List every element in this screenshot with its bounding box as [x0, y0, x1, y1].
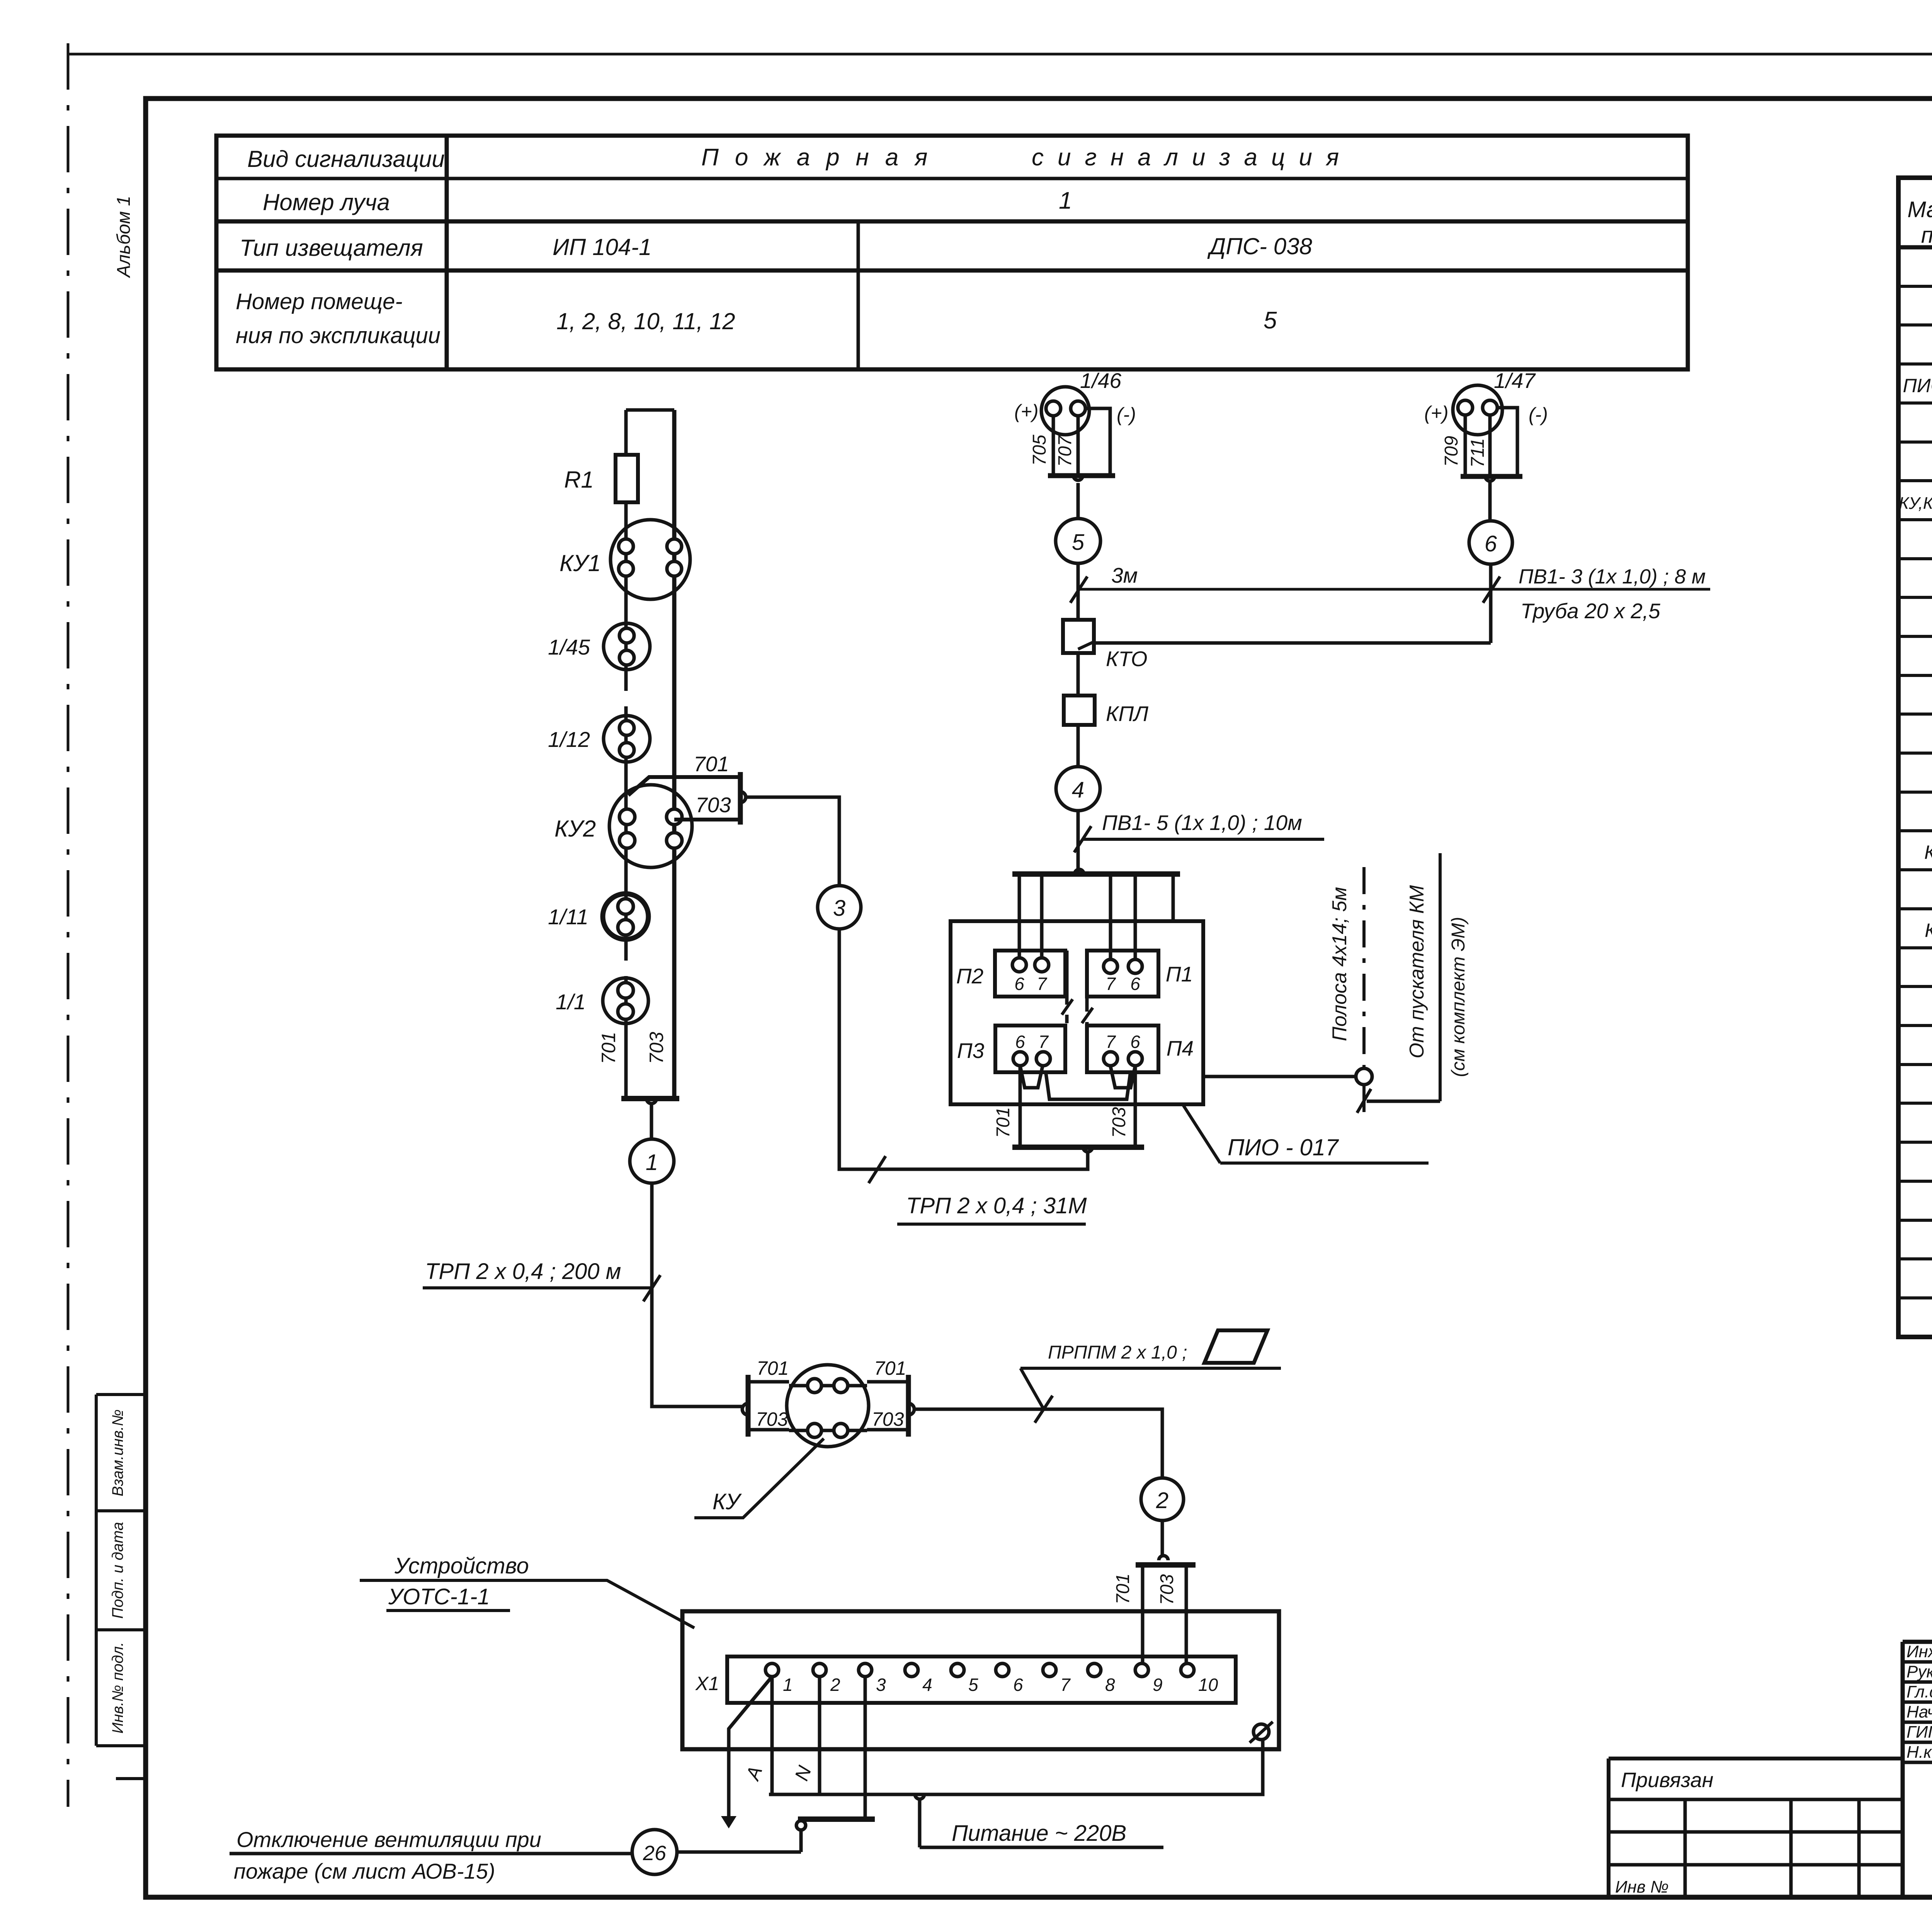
svg-text:Номер помеще-: Номер помеще-	[236, 289, 403, 314]
detector 1/1	[603, 978, 648, 1024]
spec row line	[1898, 323, 1932, 327]
wire chain bottom to node 1	[650, 1104, 653, 1139]
terminal 7	[1043, 1663, 1056, 1677]
svg-text:6: 6	[1130, 974, 1140, 994]
node 2 circle	[1141, 1478, 1184, 1520]
wire terminal 1	[770, 1677, 774, 1794]
svg-text:5: 5	[1072, 530, 1085, 555]
svg-text:П4: П4	[1167, 1036, 1194, 1060]
detector 1/11	[603, 894, 648, 939]
svg-text:Питание ~ 220В: Питание ~ 220В	[952, 1821, 1126, 1846]
KU terminal connector lines	[789, 1386, 867, 1430]
strip dash-dot line	[1362, 867, 1366, 1121]
svg-text:КУ,КУ1,КУ2: КУ,КУ1,КУ2	[1899, 494, 1932, 513]
svg-text:(-): (-)	[1117, 404, 1136, 425]
svg-text:Х1: Х1	[695, 1673, 719, 1694]
wire 709	[1464, 415, 1467, 476]
junction box KU left bump	[742, 1403, 748, 1415]
svg-text:ПВ1- 5 (1х 1,0) ; 10м: ПВ1- 5 (1х 1,0) ; 10м	[1102, 811, 1302, 835]
broken wire between P2 and P3	[1065, 951, 1069, 1023]
svg-text:сигнализация: сигнализация	[1032, 144, 1353, 171]
arrow end	[721, 1816, 736, 1828]
svg-text:701: 701	[757, 1357, 789, 1379]
spec row line	[1898, 479, 1932, 482]
terminal 5	[951, 1663, 964, 1677]
relay box P1	[1087, 951, 1158, 997]
wire 707	[1077, 416, 1080, 476]
svg-text:(+): (+)	[1014, 401, 1039, 422]
spec row line	[1898, 362, 1932, 366]
svg-text:703: 703	[872, 1408, 904, 1430]
title block signature table frame	[1903, 1642, 1932, 1897]
terminal 10	[1181, 1663, 1194, 1677]
svg-text:7: 7	[1037, 974, 1047, 994]
svg-text:Подп. и дата: Подп. и дата	[109, 1522, 126, 1619]
UOTS-1-1 device block	[682, 1611, 1279, 1749]
terminal box 701/703 above X1	[1159, 1556, 1168, 1560]
wire to node 5	[1077, 483, 1080, 519]
terminal box 701/703 at KU2	[628, 777, 740, 795]
svg-text:5: 5	[968, 1675, 978, 1695]
wire KTO to branch 1/47	[1094, 641, 1491, 645]
svg-text:701: 701	[1113, 1573, 1133, 1604]
signature rows	[1903, 1660, 1932, 1664]
svg-text:Инжен: Инжен	[1906, 1642, 1932, 1661]
supply line A N	[769, 1740, 1263, 1794]
wire 705	[1052, 416, 1055, 476]
spec row line	[1898, 1296, 1932, 1299]
svg-text:ГИП: ГИП	[1906, 1723, 1932, 1742]
svg-text:1/46: 1/46	[1080, 369, 1121, 393]
node 4 circle	[1056, 767, 1100, 811]
spec row line	[1898, 829, 1932, 832]
svg-text:П3: П3	[957, 1039, 985, 1063]
svg-text:4: 4	[1072, 777, 1084, 803]
junction box KU1	[611, 520, 690, 599]
specification table frame	[1898, 178, 1932, 1337]
svg-text:703: 703	[696, 793, 731, 817]
junction box KU left rect	[748, 1382, 789, 1430]
spec row line	[1898, 1024, 1932, 1027]
spec row line	[1898, 596, 1932, 599]
wire joint to ventilation line	[799, 1830, 803, 1852]
wires bus to P2 terminals	[1019, 874, 1042, 965]
svg-text:КПЛ: КПЛ	[1106, 702, 1148, 726]
wire terminal 2	[818, 1677, 821, 1794]
wire node 2 to terminal box	[1161, 1520, 1164, 1556]
svg-text:1/1: 1/1	[556, 990, 586, 1014]
svg-text:ИП 104-1: ИП 104-1	[553, 234, 652, 260]
svg-text:Альбом 1: Альбом 1	[114, 196, 134, 279]
node on strip line	[1356, 1068, 1372, 1085]
svg-text:3: 3	[833, 896, 845, 921]
spec row line	[1898, 518, 1932, 521]
junction box KU left end bar	[746, 1375, 751, 1437]
svg-text:1, 2, 8, 10, 11, 12: 1, 2, 8, 10, 11, 12	[556, 308, 735, 334]
svg-text:8: 8	[1105, 1675, 1115, 1695]
svg-text:Отключение вентиляции при: Отключение вентиляции при	[236, 1827, 541, 1852]
junction box KU right rect	[867, 1382, 908, 1430]
svg-text:6: 6	[1485, 531, 1497, 556]
wire from KU2 box to node 3	[746, 797, 839, 886]
svg-text:Взам.инв.№: Взам.инв.№	[109, 1409, 126, 1496]
svg-text:703: 703	[756, 1408, 788, 1430]
wire PIO right to strip node	[1203, 1075, 1356, 1078]
spec row line	[1898, 713, 1932, 716]
svg-text:ТРП 2 х 0,4 ; 200 м: ТРП 2 х 0,4 ; 200 м	[425, 1259, 621, 1284]
KM vertical line	[1439, 853, 1442, 1101]
svg-text:КТО: КТО	[1106, 647, 1148, 671]
svg-text:R1: R1	[564, 467, 594, 493]
svg-text:(-): (-)	[1529, 404, 1548, 425]
junction box KU right end bar	[906, 1375, 911, 1437]
svg-text:1/45: 1/45	[548, 635, 590, 659]
spec row line	[1898, 285, 1932, 288]
wire KPL to node 4	[1077, 725, 1080, 767]
wire node 4 to PIO bus	[1077, 811, 1080, 874]
svg-text:Нач.отд.: Нач.отд.	[1906, 1702, 1932, 1721]
svg-text:6: 6	[1014, 974, 1024, 994]
jumper wide P3-7 to P4-7	[1046, 1071, 1131, 1099]
wires bus to P1 terminals	[1111, 874, 1135, 966]
svg-text:(см комплект ЭМ): (см комплект ЭМ)	[1448, 917, 1469, 1077]
detector 1/47	[1453, 385, 1502, 435]
diagonal wire from terminal 1	[729, 1677, 772, 1816]
table column line rows3-4	[857, 221, 860, 369]
table column line	[445, 136, 449, 369]
cable dimension line 3m / PV1-3	[1078, 588, 1710, 591]
spec row line	[1898, 752, 1932, 755]
wire: dashed segment 1/11 to 1/1	[624, 939, 628, 978]
svg-text:ПВ1- 3 (1х 1,0) ; 8 м: ПВ1- 3 (1х 1,0) ; 8 м	[1519, 565, 1706, 588]
wire bus to block top	[1172, 874, 1175, 921]
broken wire between P1 and P4	[1085, 959, 1089, 1026]
spec row line	[1898, 1102, 1932, 1105]
wire node 26 to joint	[677, 1850, 801, 1854]
svg-text:Пожарная: Пожарная	[701, 144, 944, 171]
spec row line	[1898, 985, 1932, 988]
svg-text:КУ: КУ	[713, 1489, 742, 1514]
terminal 2	[813, 1663, 826, 1677]
svg-text:2: 2	[1156, 1488, 1168, 1513]
detector 1/45	[604, 623, 650, 670]
privyazan block frame	[1609, 1759, 1903, 1897]
wire bracket 1/46	[1085, 408, 1110, 476]
junction box KU right bump	[908, 1403, 914, 1415]
svg-text:Инв.№ подл.: Инв.№ подл.	[109, 1642, 126, 1733]
detector 1/46	[1041, 387, 1089, 435]
junction box KPL	[1064, 696, 1095, 725]
spec row line	[1898, 791, 1932, 794]
spec header bottom line	[1898, 245, 1932, 250]
svg-text:2: 2	[830, 1675, 840, 1695]
svg-text:ния по экспликации: ния по экспликации	[236, 323, 440, 348]
svg-text:П2: П2	[956, 964, 983, 988]
svg-text:ДПС- 038: ДПС- 038	[1207, 233, 1312, 259]
detector 1/12	[604, 716, 650, 762]
svg-text:26: 26	[643, 1842, 667, 1865]
wire: top connector	[626, 408, 674, 412]
margin stamp cells	[95, 1395, 98, 1746]
spec row line	[1898, 946, 1932, 949]
svg-text:КУ2: КУ2	[554, 816, 596, 842]
earth symbol	[1253, 1724, 1269, 1740]
svg-text:701: 701	[874, 1357, 906, 1379]
terminal 9	[1135, 1663, 1148, 1677]
table row line 2	[216, 219, 1688, 224]
svg-text:7: 7	[1105, 974, 1116, 994]
svg-text:6: 6	[1015, 1032, 1025, 1052]
svg-text:Тип извещателя: Тип извещателя	[240, 235, 423, 261]
svg-text:9: 9	[1153, 1675, 1163, 1695]
spec row line	[1898, 907, 1932, 910]
jumper P3 6-7	[1020, 1066, 1043, 1088]
wire KTO to KPL	[1077, 653, 1080, 696]
svg-text:Вид сигнализации: Вид сигнализации	[247, 146, 445, 172]
svg-text:1/11: 1/11	[548, 905, 588, 929]
relay box P3	[995, 1026, 1065, 1072]
svg-text:7: 7	[1060, 1675, 1071, 1695]
spec row line	[1898, 401, 1932, 405]
svg-text:Труба 20 х 2,5: Труба 20 х 2,5	[1520, 599, 1660, 623]
wire node 6 down to KTO line	[1489, 564, 1493, 643]
wire KU to node 2	[914, 1409, 1162, 1478]
page outer border top	[68, 53, 1932, 56]
svg-text:705: 705	[1029, 435, 1050, 466]
svg-text:ПРППМ 2 х 1,0 ;: ПРППМ 2 х 1,0 ;	[1048, 1342, 1187, 1363]
junction box KU circle	[787, 1365, 869, 1447]
svg-text:1/12: 1/12	[548, 727, 590, 752]
svg-text:УОТС-1-1: УОТС-1-1	[388, 1584, 490, 1609]
spec row line	[1898, 674, 1932, 677]
terminal 3	[859, 1663, 872, 1677]
svg-text:поз.: поз.	[1921, 223, 1932, 248]
svg-text:Привязан: Привязан	[1621, 1769, 1713, 1792]
svg-text:Устройство: Устройство	[394, 1553, 529, 1578]
wire 711	[1488, 415, 1492, 476]
svg-text:ТРП 2 х 0,4 ; 31М: ТРП 2 х 0,4 ; 31М	[906, 1193, 1087, 1218]
svg-text:ПИО-017: ПИО-017	[1903, 375, 1932, 396]
spec row line	[1898, 1257, 1932, 1260]
cable joint bar 1/47	[1461, 474, 1522, 479]
svg-text:П1: П1	[1166, 962, 1193, 986]
table row line 1	[216, 177, 1688, 180]
svg-text:(+): (+)	[1424, 402, 1449, 424]
X1 terminal strip	[727, 1656, 1236, 1703]
wire: dashed segment 1/45 to 1/12	[624, 670, 628, 716]
wire to KM line	[1367, 1100, 1440, 1103]
spec row line	[1898, 557, 1932, 560]
svg-text:711: 711	[1468, 438, 1488, 468]
wire node 3 down to PIO bottom	[839, 929, 1088, 1169]
spec row line	[1898, 1219, 1932, 1222]
svg-text:701: 701	[993, 1107, 1014, 1138]
terminal 8	[1088, 1663, 1101, 1677]
shield bar	[798, 1816, 875, 1822]
svg-text:4: 4	[922, 1675, 932, 1695]
svg-text:1/47: 1/47	[1494, 369, 1536, 393]
svg-text:6: 6	[1130, 1032, 1140, 1052]
jumper P4 7-6	[1111, 1066, 1135, 1088]
svg-text:10: 10	[1198, 1675, 1218, 1695]
supply tap circle	[915, 1794, 924, 1799]
terminal 4	[905, 1663, 918, 1677]
node 6 circle	[1469, 521, 1512, 564]
svg-text:6: 6	[1013, 1675, 1023, 1695]
svg-text:709: 709	[1441, 436, 1462, 467]
svg-text:Инв №: Инв №	[1615, 1878, 1669, 1896]
spec row line	[1898, 1180, 1932, 1183]
wire node 5 to KTO	[1077, 563, 1080, 620]
wire P4-6 to bottom bus	[1134, 1066, 1137, 1147]
svg-text:От пускателя КМ: От пускателя КМ	[1406, 885, 1428, 1058]
wire to node 6	[1488, 481, 1492, 521]
PIO bottom bus bar	[1012, 1145, 1144, 1150]
svg-text:Полоса 4х14; 5м: Полоса 4х14; 5м	[1328, 887, 1351, 1041]
wire: loop riser left line	[624, 410, 628, 1099]
svg-text:КТО: КТО	[1925, 920, 1932, 941]
relay box P4	[1087, 1026, 1158, 1072]
spec row line	[1898, 1141, 1932, 1144]
spec row line	[1898, 1063, 1932, 1066]
wire terminal 3	[864, 1677, 867, 1818]
wire: loop riser right line	[672, 410, 677, 1099]
PIO top bus bar	[1012, 871, 1180, 877]
svg-text:Н.контр.: Н.контр.	[1906, 1743, 1932, 1762]
svg-text:КУ1: КУ1	[560, 550, 601, 576]
terminal 1	[765, 1663, 779, 1677]
node 5 circle	[1056, 519, 1100, 563]
wire bracket 1/47	[1497, 408, 1517, 476]
node 26 circle	[632, 1830, 677, 1874]
junction box KU2	[609, 785, 692, 867]
svg-text:Марка,: Марка,	[1907, 197, 1932, 222]
svg-text:1: 1	[783, 1675, 793, 1695]
resistor R1	[616, 455, 638, 502]
svg-text:Гл.спец.: Гл.спец.	[1906, 1682, 1932, 1701]
svg-text:701: 701	[694, 752, 729, 776]
cable joint bar at chain bottom	[621, 1096, 679, 1101]
svg-text:703: 703	[646, 1032, 667, 1064]
svg-text:1: 1	[1059, 187, 1072, 214]
wire P3-6 to bottom bus	[1019, 1066, 1022, 1147]
cable joint bar 1/46	[1048, 473, 1115, 478]
svg-text:5: 5	[1264, 307, 1277, 334]
svg-text:пожаре (см лист АОВ-15): пожаре (см лист АОВ-15)	[234, 1859, 495, 1883]
svg-text:Рук гр.: Рук гр.	[1906, 1662, 1932, 1681]
spec row line	[1898, 868, 1932, 871]
svg-text:7: 7	[1105, 1032, 1116, 1052]
svg-text:Номер луча: Номер луча	[263, 189, 390, 215]
svg-text:КПЛ: КПЛ	[1924, 842, 1932, 863]
svg-text:3: 3	[876, 1675, 886, 1695]
node 3 circle	[818, 886, 861, 929]
spec row line	[1898, 440, 1932, 444]
wire node 1 down and to KU	[652, 1183, 742, 1406]
svg-text:1: 1	[646, 1150, 658, 1175]
svg-text:ПИО - 017: ПИО - 017	[1228, 1134, 1339, 1160]
svg-text:703: 703	[1109, 1107, 1129, 1138]
signal-type table frame	[216, 136, 1688, 369]
node 1 circle	[630, 1139, 674, 1183]
svg-text:707: 707	[1055, 435, 1075, 467]
svg-text:703: 703	[1157, 1574, 1177, 1605]
junction box KTO	[1063, 620, 1094, 653]
cable mark parallelogram	[1204, 1330, 1267, 1363]
relay box P2	[995, 951, 1065, 997]
svg-text:701: 701	[598, 1032, 619, 1064]
table row line 3	[216, 269, 1688, 273]
svg-text:7: 7	[1038, 1032, 1049, 1052]
PIO-017 block outline	[951, 921, 1203, 1104]
page outer border left (dash-dot)	[67, 43, 70, 1807]
svg-text:3м: 3м	[1111, 563, 1138, 587]
wire supply tap down	[918, 1799, 922, 1847]
spec row line	[1898, 635, 1932, 638]
joint circle below bar	[796, 1821, 806, 1830]
terminal 6	[996, 1663, 1009, 1677]
